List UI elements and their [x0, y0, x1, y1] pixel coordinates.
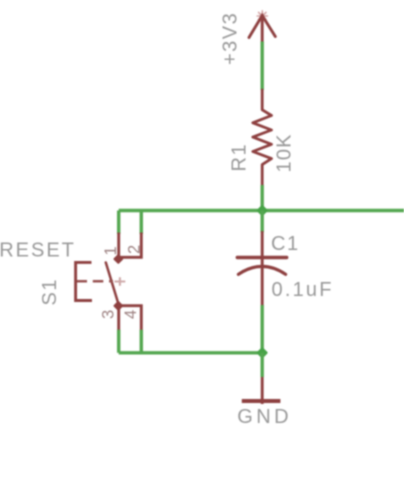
wire node to C1 [261, 211, 264, 233]
wire S1 pin3 to bottom rail [117, 330, 120, 353]
svg-text:+3V3: +3V3 [220, 12, 242, 65]
switch S1 top pins 1,2 [119, 234, 142, 257]
C1 top lead [261, 232, 264, 266]
C1 top plate [237, 256, 286, 259]
svg-text:RESET: RESET [0, 240, 76, 262]
wire R1 to node [261, 185, 264, 211]
C1 bottom lead [261, 267, 264, 305]
svg-text:S1: S1 [39, 278, 61, 305]
wire top rail to S1 pin1 [117, 211, 120, 235]
switch S1 button bracket [76, 262, 91, 300]
switch S1 lever [106, 263, 119, 304]
svg-text:C1: C1 [271, 233, 300, 255]
power +3V3 symbol U$1 [249, 11, 275, 42]
resistor R1 [253, 90, 272, 185]
svg-text:GND: GND [237, 406, 292, 428]
wire horizontal bottom rail [119, 351, 263, 354]
svg-text:0.1uF: 0.1uF [272, 279, 334, 301]
junction node at C1/bottom rail [256, 347, 268, 359]
switch S1 bottom contact dot [113, 301, 123, 311]
svg-text:3: 3 [100, 310, 118, 319]
switch S1 actuator cross [115, 277, 126, 285]
pin marker star at +3V3 tip [257, 11, 267, 21]
svg-text:4: 4 [122, 310, 140, 319]
svg-text:2: 2 [125, 245, 143, 254]
wire S1 pin4 to bottom rail [140, 330, 143, 353]
svg-text:R1: R1 [229, 143, 251, 172]
svg-text:10K: 10K [274, 133, 296, 172]
svg-text:1: 1 [102, 246, 120, 255]
junction node at R1/C1/top rail [256, 205, 268, 217]
capacitor C1 [237, 232, 286, 305]
switch S1 top contact dot [113, 254, 123, 264]
wire +3V3 to R1 [261, 42, 264, 91]
ground GND symbol [242, 377, 281, 404]
C1 curved plate [238, 266, 285, 274]
switch S1 dashed link [77, 280, 114, 283]
wire bottom rail to GND [261, 353, 264, 377]
wire C1 to bottom rail [261, 305, 264, 353]
wire top rail to S1 pin2 [140, 211, 143, 235]
+3V3 arrow shaft (red part) [261, 16, 264, 42]
switch S1 bottom pins 3,4 [119, 306, 142, 330]
+3V3 arrow head [249, 16, 275, 38]
wire horizontal top rail [119, 209, 404, 212]
